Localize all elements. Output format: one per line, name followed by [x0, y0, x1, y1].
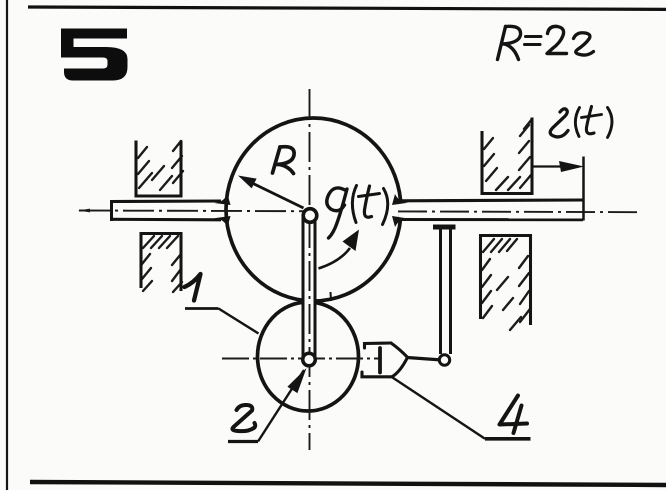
letter R of equation: [498, 26, 521, 59]
pulley horizontal centerline: [222, 358, 379, 360]
horizontal link from fork tip to pivot: [407, 358, 442, 361]
figure number 5: [61, 29, 128, 81]
label q(t): [327, 186, 388, 239]
pin at pulley centre: [303, 353, 316, 366]
label R at disk: [273, 147, 295, 174]
label 4 with leader: [393, 378, 531, 439]
axis arrow tip at left end of centerline: [78, 209, 90, 213]
left shaft segment: [111, 200, 224, 221]
lower left wall bearing: [140, 233, 183, 293]
shaft-to-disk fillet upper left: [214, 194, 231, 205]
small pulley of radius r: [258, 302, 359, 411]
lower right wall bearing: [479, 235, 532, 330]
vertical centerline: [309, 89, 311, 450]
radius arrow for R: [238, 176, 304, 209]
vertical link rod from shaft end down to fork pivot: [433, 227, 456, 354]
top frame border line: [28, 7, 666, 9]
pin at disk centre: [303, 209, 317, 223]
digit 2 of equation: [547, 26, 567, 53]
vertical rod between disk and pulley: [303, 213, 316, 359]
upper right wall bearing: [481, 118, 534, 195]
big disk of radius R: [226, 118, 401, 301]
bottom frame border line: [30, 482, 666, 485]
fork follower (element 4): [362, 343, 408, 377]
shaft-to-disk fillet lower left: [214, 216, 231, 227]
s(t) dimension arrow: [532, 157, 584, 221]
label 1 with leader: [185, 274, 259, 334]
label s(t): [550, 107, 612, 138]
shaft-to-disk fillet lower right: [392, 216, 408, 227]
shaft-to-disk fillet upper right: [392, 194, 408, 205]
right shaft segment: [399, 200, 583, 220]
pivot ring at bottom of link rod: [439, 355, 449, 365]
upper left wall bearing: [135, 141, 184, 198]
left frame border line: [6, 0, 8, 490]
equals sign: [525, 37, 542, 45]
handwritten r of equation: [574, 33, 594, 55]
curved arrow for q(t): [319, 230, 360, 269]
label 2 with arrow to pulley pin: [228, 368, 307, 442]
tangency tick between disk and pulley: [330, 292, 333, 301]
horizontal shaft centerline: [79, 211, 640, 213]
